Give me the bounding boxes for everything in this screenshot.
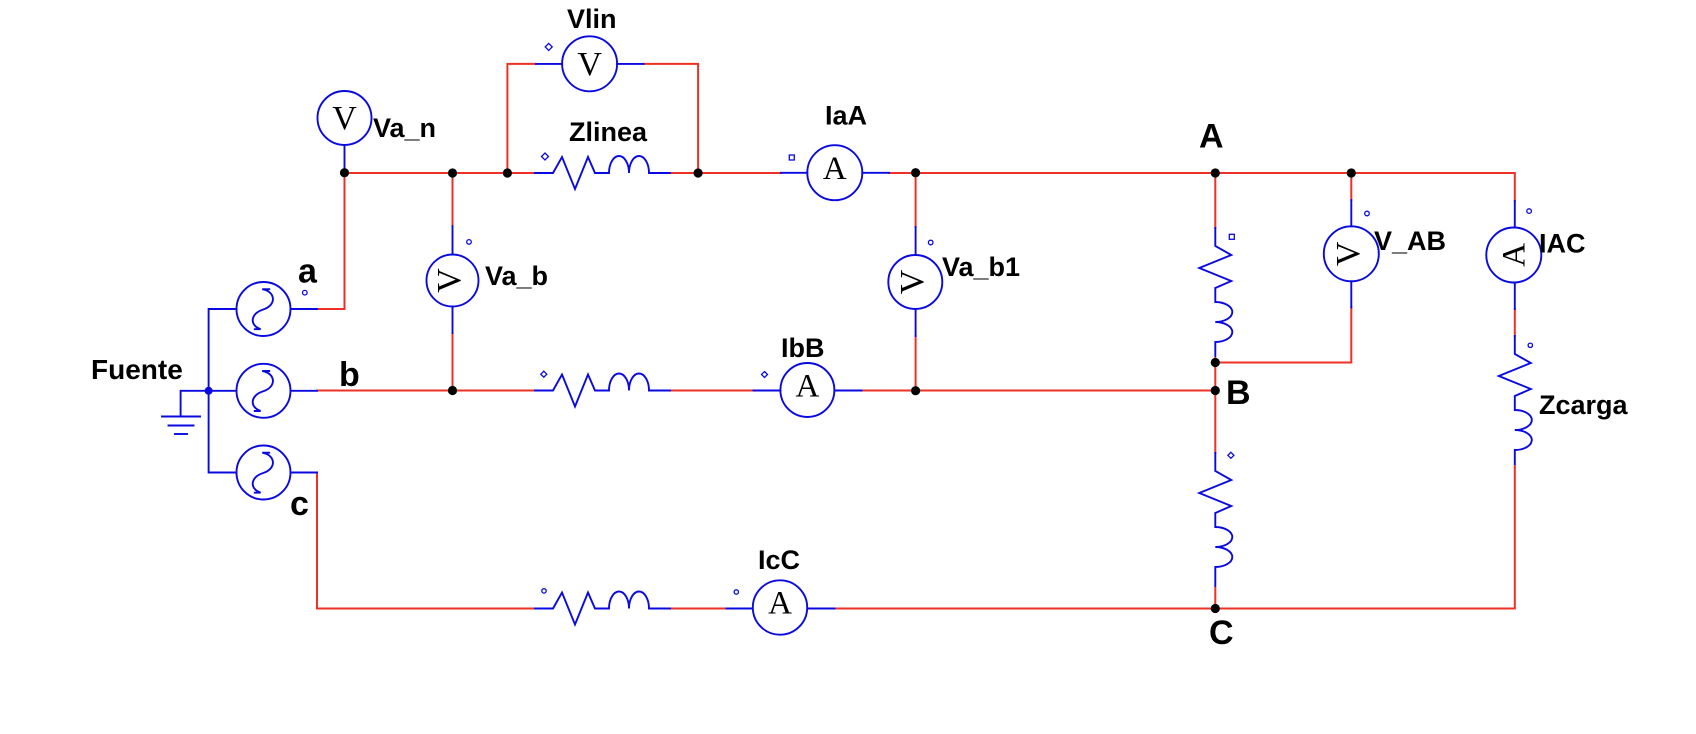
wire Vlin right junction to ammeter IaA: [698, 172, 781, 174]
svg-text:V: V: [431, 268, 468, 293]
pin marker Zlinea: [542, 153, 549, 160]
svg-text:Zlinea: Zlinea: [569, 117, 648, 147]
pin marker Zcarga: [1528, 343, 1532, 347]
pin marker Va_b: [467, 240, 472, 245]
junction source neutral (blue): [205, 387, 213, 395]
junction Va_b1 bottom: [911, 386, 920, 395]
pin marker IAC: [1527, 209, 1532, 214]
voltmeter Va_b1: [888, 227, 942, 336]
wire Zlinea lead to Vlin right junction: [670, 172, 698, 174]
wire source c riser down to bottom bus: [317, 473, 536, 609]
pin marker V_AB: [1365, 211, 1370, 216]
load impedance B-C (R+L vertical): [1199, 453, 1232, 586]
junction node C: [1211, 604, 1220, 613]
wire load AB bottom to node B: [1214, 358, 1216, 391]
wire IAC bottom to Zcarga top: [1514, 309, 1516, 336]
wire V_AB top drop: [1350, 173, 1352, 200]
wire top bus: Va_b junction to Vlin left junction: [453, 172, 508, 174]
AC source c: [210, 446, 318, 500]
wire Vlin loop right riser: [644, 64, 699, 173]
wire phase c impedance to ammeter IcC: [670, 608, 727, 610]
wire mid bus: Va_b junction to phase b impedance: [453, 390, 537, 392]
junction Va_b bottom: [448, 386, 457, 395]
pin marker Vlin: [545, 43, 552, 50]
wire Va_b1 top drop: [915, 173, 917, 227]
ground: [162, 417, 200, 435]
wire top bus: Vlin left junction to Zlinea lead: [507, 172, 536, 174]
svg-text:A: A: [823, 151, 847, 187]
wire node A to V_AB top junction: [1215, 172, 1351, 174]
wire V_AB bottom to load AB junction: [1215, 308, 1351, 363]
wire Vlin loop left riser: [507, 64, 536, 173]
junction node A: [1211, 168, 1220, 177]
pin marker phase b impedance: [541, 371, 547, 377]
wire phase b impedance to ammeter IbB: [670, 390, 754, 392]
wire source common neutral (blue): [208, 309, 210, 473]
voltmeter Vlin: [536, 36, 644, 91]
AC source b: [210, 364, 318, 418]
load impedance A-B (R+L vertical): [1199, 228, 1232, 356]
junction Va_b1 top: [911, 168, 920, 177]
ammeter IbB: [754, 363, 862, 417]
ammeter IaA: [781, 145, 889, 200]
wire ground tap: [181, 391, 209, 417]
junction node B: [1211, 386, 1220, 395]
junction load AB bottom / V_AB return: [1211, 358, 1220, 367]
svg-text:A: A: [1199, 118, 1224, 156]
svg-text:Zcarga: Zcarga: [1539, 390, 1629, 420]
wire Va_b1 top junction to node A: [916, 172, 1216, 174]
wire ammeter IaA to Va_b1 top junction: [889, 172, 916, 174]
svg-text:Va_b: Va_b: [485, 261, 548, 291]
junction Va_b top: [448, 168, 457, 177]
wire top bus: Va_n junction to Va_b junction: [345, 172, 453, 174]
svg-text:V_AB: V_AB: [1374, 226, 1446, 256]
ammeter IcC: [727, 580, 835, 634]
svg-text:IcC: IcC: [758, 545, 800, 575]
pin marker IbB: [762, 372, 768, 378]
pin marker IaA: [789, 155, 794, 160]
svg-text:V: V: [894, 269, 931, 294]
svg-text:a: a: [298, 253, 318, 291]
svg-text:c: c: [290, 485, 309, 523]
svg-text:C: C: [1209, 614, 1234, 652]
AC source a: [210, 282, 318, 336]
wire source a to node Va_n (phase a riser): [317, 173, 345, 309]
junction V_AB top: [1347, 168, 1356, 177]
wire ammeter IbB to Va_b1 bottom junction: [862, 390, 916, 392]
wire load BC bottom to node C: [1214, 588, 1216, 609]
wire node B down to load BC: [1214, 391, 1216, 454]
pin marker phase c impedance: [542, 589, 546, 593]
voltmeter V_AB: [1324, 200, 1379, 308]
svg-text:Va_n: Va_n: [373, 113, 436, 143]
pin marker Va_b1: [928, 240, 933, 245]
impedance Zlinea (R+L): [535, 156, 670, 189]
wire Va_b top drop: [452, 173, 454, 226]
wire Va_b1 bottom junction to node B: [916, 390, 1216, 392]
pin marker IcC: [734, 590, 738, 594]
svg-text:Fuente: Fuente: [91, 354, 183, 385]
svg-text:IAC: IAC: [1539, 229, 1586, 259]
impedance phase b (R+L): [535, 374, 670, 407]
svg-text:B: B: [1226, 374, 1251, 412]
wire Va_b bottom drop: [452, 333, 454, 391]
svg-text:b: b: [339, 356, 360, 394]
wire node C to Zcarga riser: [1215, 466, 1515, 609]
svg-text:IbB: IbB: [781, 333, 825, 363]
pin marker load B-C: [1228, 452, 1234, 458]
wire Va_b1 bottom drop: [915, 336, 917, 391]
svg-text:A: A: [795, 368, 819, 404]
pin marker load A-B: [1229, 234, 1234, 239]
ammeter IAC: [1486, 201, 1541, 309]
pin marker source a: [303, 290, 308, 295]
junction Vlin left: [503, 168, 512, 177]
svg-text:IaA: IaA: [825, 101, 867, 131]
wire node A down to load AB: [1214, 173, 1216, 228]
svg-text:V: V: [577, 46, 602, 83]
voltmeter Va_b: [427, 226, 479, 333]
wire V_AB top junction to IAC drop: [1351, 173, 1515, 201]
voltmeter Va_n: [318, 91, 372, 173]
svg-text:V: V: [1330, 241, 1367, 266]
junction Vlin right: [694, 168, 703, 177]
svg-text:Va_b1: Va_b1: [942, 252, 1020, 282]
svg-text:V: V: [332, 100, 357, 137]
junction node a riser / Va_n: [340, 168, 349, 177]
svg-text:A: A: [1496, 243, 1532, 267]
wire ammeter IcC to node C: [835, 608, 1216, 610]
impedance phase c (R+L): [535, 592, 670, 625]
svg-text:A: A: [768, 586, 792, 622]
wire source b to mid bus: [317, 390, 453, 392]
svg-text:Vlin: Vlin: [567, 4, 617, 34]
impedance Zcarga (R+L vertical): [1499, 336, 1532, 464]
